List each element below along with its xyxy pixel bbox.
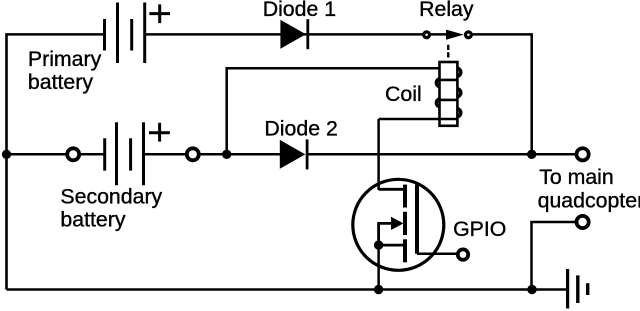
diode D2: [280, 139, 307, 169]
relay coil L1: [379, 62, 461, 126]
svg-text:Diode 1: Diode 1: [263, 0, 336, 21]
MOSFET Q1: [353, 179, 444, 270]
wire bottom rail: [7, 288, 567, 291]
junction node MOSFET source on bottom rail: [374, 285, 383, 294]
junction node diode2 branch: [222, 150, 231, 159]
svg-text:Diode 2: Diode 2: [264, 117, 337, 141]
terminal secondary battery right: [187, 148, 199, 160]
svg-text:quadcopter: quadcopter: [538, 189, 640, 213]
drain lead: [379, 188, 405, 191]
relay switch K1: [424, 30, 472, 40]
svg-text:battery: battery: [28, 70, 93, 94]
gate bar: [415, 185, 419, 254]
body connection with arrow: [379, 223, 393, 245]
junction node output drop on bottom rail: [527, 285, 536, 294]
wire left vertical bus: [5, 34, 8, 289]
terminal GPIO: [458, 249, 468, 259]
terminal to main quadcopter plus: [577, 148, 589, 160]
battery B2 secondary: [105, 122, 144, 185]
junction node main rail left: [2, 150, 11, 159]
dashed link relay to coil: [447, 45, 449, 58]
wire main rail segment C diode2 to output terminal: [307, 153, 577, 156]
diode D1: [280, 19, 307, 49]
wire MOSFET gate to GPIO terminal: [417, 252, 457, 255]
svg-text:battery: battery: [60, 207, 125, 231]
wire diode2 branch up to coil entry: [227, 68, 440, 154]
plus sign of battery B1: [149, 4, 170, 23]
junction dot at MOSFET source: [374, 240, 383, 249]
junction node relay drop on main rail: [527, 150, 536, 159]
terminal to main quadcopter minus: [577, 216, 589, 228]
battery B1 primary: [105, 3, 145, 64]
wire top rail left segment: [5, 33, 104, 36]
plus sign of battery B2: [149, 123, 170, 142]
wire second output terminal to bottom rail: [532, 222, 578, 290]
svg-text:GPIO: GPIO: [453, 217, 506, 241]
wire main rail segment A: [7, 153, 105, 156]
terminal secondary battery left: [67, 148, 79, 160]
svg-text:To main: To main: [539, 165, 614, 189]
wire top rail battery to relay: [145, 33, 424, 36]
wire relay to right corner and drop to main rail: [471, 34, 532, 154]
wire main rail segment B: [144, 153, 280, 156]
wire coil exit to MOSFET drain: [377, 119, 380, 190]
svg-text:Coil: Coil: [385, 82, 422, 106]
source lead: [379, 244, 405, 247]
ground symbol: [568, 269, 588, 309]
svg-text:Secondary: Secondary: [60, 184, 162, 208]
channel segments: [403, 185, 407, 208]
wire MOSFET source down to bottom rail: [377, 245, 380, 289]
svg-text:Primary: Primary: [28, 47, 102, 71]
svg-text:Relay: Relay: [419, 0, 474, 21]
